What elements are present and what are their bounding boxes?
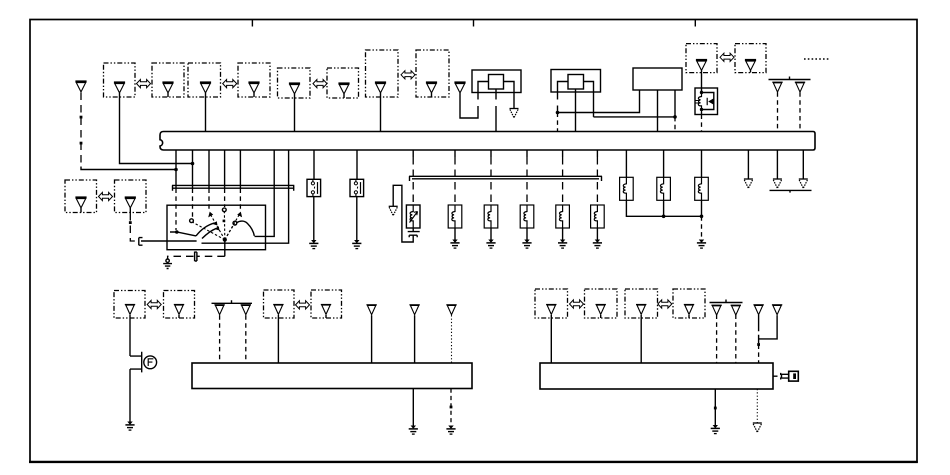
inline connector arrow AL1 — [147, 300, 161, 308]
inline connector arrow AR1 — [570, 300, 584, 308]
SW1 wiper feed dot — [175, 230, 179, 234]
wire: D5 dashed into switch — [239, 189, 241, 212]
SW1 wiper arm 1 — [196, 223, 215, 236]
SW1 dashed radial to contact 5 — [225, 215, 240, 240]
wire: D4 dashed into switch — [224, 189, 226, 208]
tick on top border — [473, 20, 475, 27]
connector triangle in BM2 — [125, 198, 136, 208]
wire: T12 dotted to ECU1 — [451, 315, 453, 363]
connector triangle T11 — [409, 305, 419, 315]
connector box B11 — [735, 44, 766, 73]
wire: SW1 pivot to ground, dashed — [224, 240, 226, 257]
noise filter F1 — [130, 352, 142, 373]
inline connector arrow A2 — [223, 80, 237, 88]
wire: link dashed to ground — [701, 216, 703, 239]
wire: BR1 to ECU2 — [550, 315, 552, 363]
square dot — [714, 407, 717, 410]
bus drop D17 — [663, 150, 665, 177]
bus drop D16 — [625, 150, 627, 177]
square dot — [450, 406, 453, 409]
wire: S3 dashed to ECU1 — [219, 315, 221, 363]
ground G8 — [697, 240, 706, 249]
relay R1 inner element — [489, 75, 504, 90]
injector INJ2 — [448, 205, 462, 228]
connector box B4 — [238, 63, 270, 97]
connector box B7 — [366, 50, 399, 97]
connector bar over injectors — [409, 176, 602, 181]
connector triangle in BL4 — [321, 305, 331, 315]
connector box BR2 — [585, 289, 618, 318]
shield pair over ECU2: overline — [710, 300, 743, 303]
wire: R2 left lead to node — [557, 92, 559, 113]
square dot node — [757, 343, 760, 346]
connector triangle in B5 — [289, 84, 300, 94]
wire: dashed from node to bus — [557, 113, 559, 132]
bus drop D5 — [239, 150, 241, 189]
SW1 dashed radial to contact 6 — [225, 225, 234, 240]
bus drop D6 — [255, 150, 275, 236]
main junction bus bar — [160, 132, 815, 151]
bus drop D7 — [202, 150, 289, 243]
wire: ECU1 dashed to ground — [450, 389, 452, 426]
inline connector arrow AM — [99, 192, 113, 200]
inline connector arrow A1 — [137, 80, 151, 88]
relay R2 inner element — [568, 75, 584, 90]
injector drop D13 — [526, 150, 528, 157]
SW1 right contact dome — [237, 221, 255, 236]
shield triangle S6 — [731, 305, 741, 315]
SW1 contact circle c4 — [222, 208, 226, 212]
ignition switch SW1 box — [167, 205, 266, 250]
connector triangle in B3 — [200, 83, 211, 93]
wire: S2 dashed to bus — [799, 92, 801, 131]
wire: T9 elbow to relay R1 left lead — [460, 93, 478, 119]
wire: BL3 to ECU1 — [277, 315, 279, 363]
bus drop D20 — [776, 150, 778, 179]
ground G7 — [593, 240, 602, 249]
wire: dashed node to bus — [674, 117, 676, 132]
junction: B1 wire to D2 — [191, 162, 195, 166]
connector triangle T9 — [454, 83, 465, 93]
page arrow under loop — [389, 206, 398, 215]
ground G1 — [309, 240, 318, 249]
wire: SW2 to ground — [313, 197, 315, 240]
resistor RS3 — [695, 177, 709, 200]
relay R1 internal legs — [478, 82, 514, 93]
ground G11 — [446, 426, 455, 435]
wire: U1 right lead to node — [674, 90, 676, 117]
door switch SW2 — [307, 179, 321, 196]
connector triangle T12 — [446, 305, 456, 315]
wire: BR3 to ECU2 — [640, 315, 642, 363]
connector triangle T10 — [366, 305, 376, 315]
connector triangle in B10 — [696, 60, 707, 70]
wire: T14 elbow to T13 line — [759, 315, 778, 339]
connector box B1 — [104, 63, 136, 97]
SW1 contact arrow a3 — [208, 212, 213, 218]
connector triangle in BR2 — [596, 305, 606, 315]
bus drop D4 — [224, 150, 226, 189]
square dot on radial — [223, 220, 226, 223]
bolt ground under SW1 — [166, 259, 169, 262]
wire: S6 dashed to ECU2 — [735, 315, 737, 364]
connector box BR3 — [625, 289, 658, 318]
door switch SW3 — [350, 179, 364, 196]
injector INJ3 — [484, 205, 498, 228]
SW1 contact arrow a5 — [237, 212, 242, 218]
injector drop D11 — [454, 150, 456, 157]
bus drop D8 — [313, 150, 315, 179]
connector box B2 — [152, 63, 184, 97]
injector drop D10 — [412, 150, 414, 157]
INJ1 arrow mark — [410, 212, 418, 223]
wire: node dashed to ECU2 — [758, 345, 760, 364]
ground G12 — [711, 425, 720, 434]
connector box B10 — [686, 44, 717, 73]
K1 junction bottom — [700, 108, 703, 111]
shield triangle S2 — [795, 82, 805, 92]
connector triangle in B1 — [114, 83, 125, 93]
SW1 dashed radial to contact 4 — [223, 212, 225, 240]
wire to ground — [596, 228, 598, 240]
page arrow — [744, 179, 753, 188]
injector INJ6 — [591, 205, 605, 228]
injector drop D12 — [490, 150, 492, 157]
page arrow down right — [753, 423, 762, 432]
connector triangle T0 — [75, 82, 86, 92]
connector triangle in B6 — [338, 84, 349, 94]
wire: D2 dashed into switch — [192, 189, 194, 219]
wire: T0 dash-dot drop to node row — [80, 93, 82, 168]
cold start injector INJ1 — [406, 205, 420, 228]
ECU2 box — [540, 363, 773, 389]
connector box B8 — [416, 50, 449, 97]
wire: B5 to bus top — [294, 94, 296, 132]
control unit U1 box — [633, 68, 682, 90]
wire: mid-left pair to J2 — [130, 213, 139, 241]
SW1 dashed radial to contact 2 — [193, 222, 225, 240]
connector box BL4 — [311, 290, 342, 318]
K1 diode — [708, 98, 714, 104]
wire: B3 to bus top — [205, 93, 207, 132]
injector drop D15 — [596, 150, 598, 157]
wire: B1 drop to bus drop D2 — [120, 93, 193, 164]
K1 junction top — [700, 91, 703, 94]
relay R1 outer box — [472, 70, 521, 93]
connector box BM2 — [115, 180, 147, 213]
wire to ground — [526, 228, 528, 240]
wire: B7 to bus top — [380, 93, 382, 132]
SW1 wiper arm 2 — [202, 228, 217, 238]
K1 right branch — [702, 93, 714, 110]
capacitor C1 under INJ1 — [408, 228, 420, 237]
shield pair over ECU1: overline — [212, 300, 253, 303]
connector box BL1 — [114, 291, 145, 319]
wire: D1 dashed into switch — [175, 189, 177, 231]
wire: S4 dashed to ECU1 — [245, 315, 247, 363]
connector symbol J3 — [195, 252, 197, 262]
shield triangle S3 — [214, 305, 224, 315]
bus drop D1 — [175, 150, 177, 189]
resistor RS1 — [620, 177, 634, 200]
wire to ground — [490, 228, 492, 240]
SW1 pivot — [223, 238, 227, 242]
SW1 contact circle c2 — [190, 219, 194, 223]
wire: R2 center lead to bus — [575, 92, 577, 132]
shield triangle S1 — [772, 82, 782, 92]
bus drop D18 — [701, 150, 703, 177]
K1 core bars — [696, 101, 701, 104]
wire: T11 to ECU1 — [414, 315, 416, 363]
diode relay K1 box — [695, 88, 718, 115]
connector box BR1 — [535, 289, 568, 318]
inline connector arrow A3 — [313, 80, 327, 88]
connector triangle T13 — [753, 305, 763, 315]
page arrow below R1 — [510, 109, 519, 118]
wire: T13 down to node — [758, 315, 760, 343]
junction: T0 wire to bus drop D1 — [174, 168, 178, 172]
wire: B10 to diode relay — [701, 70, 703, 88]
bus drop D9 — [356, 150, 358, 179]
wire: ECU1 to ground — [412, 389, 414, 426]
wire: ECU2 to ground — [714, 389, 716, 425]
wire: SW3 to ground — [356, 197, 358, 240]
dotted spare mark — [804, 58, 830, 60]
inline connector arrow A4 — [401, 71, 415, 79]
K1 coil on left branch — [698, 90, 701, 113]
ground G2 — [352, 240, 361, 249]
connector box B3 — [188, 63, 221, 97]
ground G9 — [125, 422, 134, 431]
connector triangle in BL2 — [174, 305, 184, 315]
connector box BR4 — [673, 289, 705, 318]
injector INJ4 — [520, 205, 534, 228]
bus drop D19 — [747, 150, 749, 179]
connector box BM1 — [65, 180, 97, 213]
wire: R1 right lead — [513, 93, 515, 109]
wire: S5 dashed to ECU2 — [716, 315, 718, 364]
resistor RS2 — [657, 177, 671, 200]
connector triangle in BL3 — [273, 305, 283, 315]
shield triangle S4 — [241, 305, 251, 315]
relay R2 outer box — [551, 70, 601, 93]
wire: U1 center lead to bus — [657, 90, 659, 132]
tick on top border — [694, 20, 696, 27]
connector triangle in B11 — [745, 60, 756, 70]
connector triangle in BL1 — [125, 305, 135, 315]
connector box B5 — [278, 68, 311, 98]
connector triangle in B8 — [426, 83, 437, 93]
connector triangle in BR3 — [636, 305, 646, 315]
connector triangle in B7 — [375, 83, 386, 93]
connector triangle in BR4 — [684, 305, 694, 315]
connector triangle in B4 — [248, 83, 259, 93]
wire: T10 to ECU1 — [371, 315, 373, 363]
SW1 contact circle c6 — [233, 221, 237, 225]
connector bar over switch — [172, 185, 294, 190]
bus drop D21 — [802, 150, 804, 179]
ground G3 — [450, 240, 459, 249]
wire to ground — [454, 228, 456, 240]
connector triangle in B2 — [162, 83, 173, 93]
wire: BL1 down to noise filter — [129, 315, 131, 356]
square dot on that wire — [129, 221, 132, 224]
SW1 wiper feed line — [170, 232, 196, 236]
bus drop D3 — [208, 150, 210, 189]
wire: D3 dashed into switch — [208, 189, 210, 212]
ground G4 — [486, 240, 495, 249]
relay R2 internal legs — [558, 82, 594, 93]
inline connector arrow AL2 — [296, 301, 310, 309]
connector triangle in BM1 — [75, 198, 86, 208]
square dot on T0 wire — [80, 142, 83, 145]
square dot on T0 wire — [80, 116, 83, 119]
shield pair top right : overline — [769, 77, 811, 80]
wire: resistor common link — [626, 200, 701, 216]
wire: ECU2 dotted down — [756, 389, 758, 423]
inline connector arrow AR2 — [658, 300, 672, 308]
junction dots on link — [662, 215, 666, 219]
SW1 dashed radial to contact 3 — [211, 215, 225, 240]
inline connector arrow A5 — [720, 53, 734, 61]
injector drop D14 — [562, 150, 564, 157]
wire: ECU2 right dashed stub — [773, 375, 781, 377]
shield triangle S5 — [711, 305, 721, 315]
tick on top border — [251, 20, 253, 27]
connector symbol J2 on left entry — [139, 238, 146, 246]
wire: R1 center lead to bus — [495, 93, 497, 132]
connector box BL2 — [164, 291, 195, 319]
wire: INJ1 ground loop — [393, 185, 413, 242]
wire: node to U1 left lead — [558, 90, 640, 113]
connector triangle T14 — [772, 305, 782, 315]
wire: left entry into SW1 — [146, 240, 197, 242]
key plug symbol — [781, 373, 789, 380]
bus drop D2 — [192, 150, 194, 189]
wire: filter to ground — [129, 369, 131, 421]
underline below right arrows — [770, 190, 812, 192]
junction on R2 left lead — [556, 111, 560, 115]
wire: S1 dashed to bus — [777, 92, 779, 131]
wire to ground — [562, 228, 564, 240]
junction on U1 right lead — [673, 115, 677, 119]
wire: R2 right lead to node under U1 — [594, 116, 676, 118]
ground G6 — [558, 240, 567, 249]
page arrow — [773, 179, 782, 188]
ECU1 box — [192, 363, 472, 389]
wire: K1 to bus dashed — [701, 115, 703, 132]
wire: R2 right lead down — [593, 92, 595, 117]
injector INJ5 — [556, 205, 570, 228]
connector box BL3 — [264, 290, 295, 318]
ground G5 — [522, 240, 531, 249]
ground G10 — [409, 426, 418, 435]
connector triangle in BR1 — [546, 305, 556, 315]
page arrow — [799, 179, 808, 188]
connector box B6 — [327, 68, 359, 98]
